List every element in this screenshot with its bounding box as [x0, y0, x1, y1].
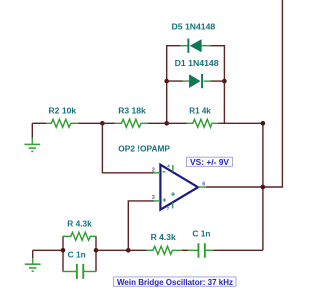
diode D1 (points right): [183, 74, 211, 88]
node: parallel RC left junction dot: [61, 248, 66, 253]
capacitor C 1n (parallel): [63, 264, 97, 279]
node C junction dot (R1 right / output column top): [261, 121, 266, 126]
svg-text:OP2 !OPAMP: OP2 !OPAMP: [118, 143, 170, 153]
capacitor C 1n (series): [188, 243, 213, 257]
resistor R 4.3k (parallel): [63, 232, 97, 240]
ground (top left): [24, 123, 40, 151]
resistor R3: [115, 119, 148, 127]
pin 4 stub (V-): [172, 203, 174, 209]
wire: R2 right to node A: [78, 122, 103, 124]
svg-text:6: 6: [202, 182, 205, 188]
pin 2 stub: [153, 172, 160, 174]
wire: D5 row left segment: [166, 45, 181, 47]
wire: between series R and C: [182, 249, 189, 251]
wire: diode loop right vertical: [223, 46, 225, 124]
svg-text:C 1n: C 1n: [68, 250, 86, 260]
svg-text:R 4.3k: R 4.3k: [151, 232, 176, 242]
wire: node E to series R: [128, 249, 146, 251]
wire: R1 right to node C (output column): [218, 122, 263, 124]
minus marker: [162, 171, 165, 173]
op-amp U1 triangle: [152, 163, 206, 211]
svg-text:R 4.3k: R 4.3k: [67, 219, 92, 229]
annotation VS: +/- 9V: [187, 157, 233, 167]
svg-text:Wein Bridge Oscillator: 37 kHz: Wein Bridge Oscillator: 37 kHz: [117, 277, 233, 287]
annotation Wein Bridge Oscillator: 37 kHz: [114, 277, 237, 287]
wire: D5 row right segment: [211, 45, 226, 47]
wire: node A down and right to op-amp pin 2: [102, 123, 153, 173]
node: D1 right junction dot: [222, 79, 227, 84]
wire: op-amp output to node D: [206, 186, 263, 188]
wire: diode loop left vertical: [166, 46, 168, 124]
plus marker (pin 3): [163, 198, 166, 201]
pin 7 stub (V+): [172, 165, 174, 172]
node: parallel RC right junction dot: [94, 248, 99, 253]
node: D1 left junction dot: [164, 79, 169, 84]
pin 6 stub: [198, 186, 206, 188]
wire: node A to R3: [102, 122, 115, 124]
ground (bottom left): [25, 250, 41, 271]
wire: bottom row ground to parallel RC: [33, 249, 63, 251]
wire: node B to R1: [167, 122, 187, 124]
svg-text:R1 4k: R1 4k: [189, 105, 211, 115]
wire: parallel RC left vertical: [62, 236, 64, 271]
svg-text:C 1n: C 1n: [192, 229, 210, 239]
wire: R3 right to node B: [148, 122, 167, 124]
plus marker (inner): [171, 192, 175, 196]
node D junction dot (output): [261, 185, 266, 190]
svg-text:VS: +/- 9V: VS: +/- 9V: [190, 158, 230, 167]
resistor R 4.3k (series): [147, 246, 182, 254]
wire: top resistor row left segment (ground to R2): [32, 122, 46, 124]
wire: series C to right column: [213, 249, 263, 251]
node B junction dot (R3/R1/diode-left net): [164, 121, 169, 126]
svg-text:R2 10k: R2 10k: [49, 105, 77, 115]
wire: right column vertical (R1 right node down through output to series RC): [262, 123, 264, 250]
diode D5 (points left): [180, 39, 210, 53]
wire: D1 row right segment: [211, 80, 225, 82]
wire: parallel RC right vertical: [95, 236, 97, 271]
svg-text:D5 1N4148: D5 1N4148: [172, 22, 216, 32]
svg-text:3: 3: [152, 195, 155, 201]
wire: RC node to pin3 node: [96, 249, 128, 251]
resistor R2: [46, 119, 78, 127]
wire: far-right output riser from top edge down to output row: [263, 0, 283, 187]
resistor R1: [187, 119, 219, 127]
wire: node E up and right to op-amp pin 3: [128, 201, 153, 250]
node E junction dot (pin 3 branch): [126, 248, 131, 253]
node A junction dot (R2/R3/pin2 net): [100, 121, 105, 126]
pin 3 stub: [153, 200, 160, 202]
svg-text:D1 1N4148: D1 1N4148: [175, 58, 219, 68]
svg-text:2: 2: [152, 168, 155, 174]
wire: D1 row left segment: [167, 80, 183, 82]
svg-text:R3 18k: R3 18k: [118, 105, 146, 115]
